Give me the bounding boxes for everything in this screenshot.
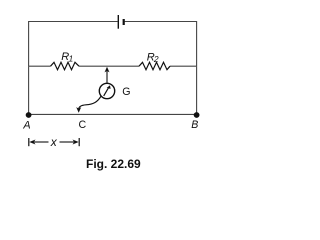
svg-text:R2: R2 [147,51,159,64]
svg-text:C: C [79,119,87,131]
svg-text:A: A [22,120,30,132]
svg-text:Fig. 22.69: Fig. 22.69 [86,157,141,171]
svg-text:R1: R1 [61,51,73,64]
svg-text:G: G [122,86,130,98]
svg-text:B: B [191,119,198,131]
svg-text:x: x [50,135,58,149]
